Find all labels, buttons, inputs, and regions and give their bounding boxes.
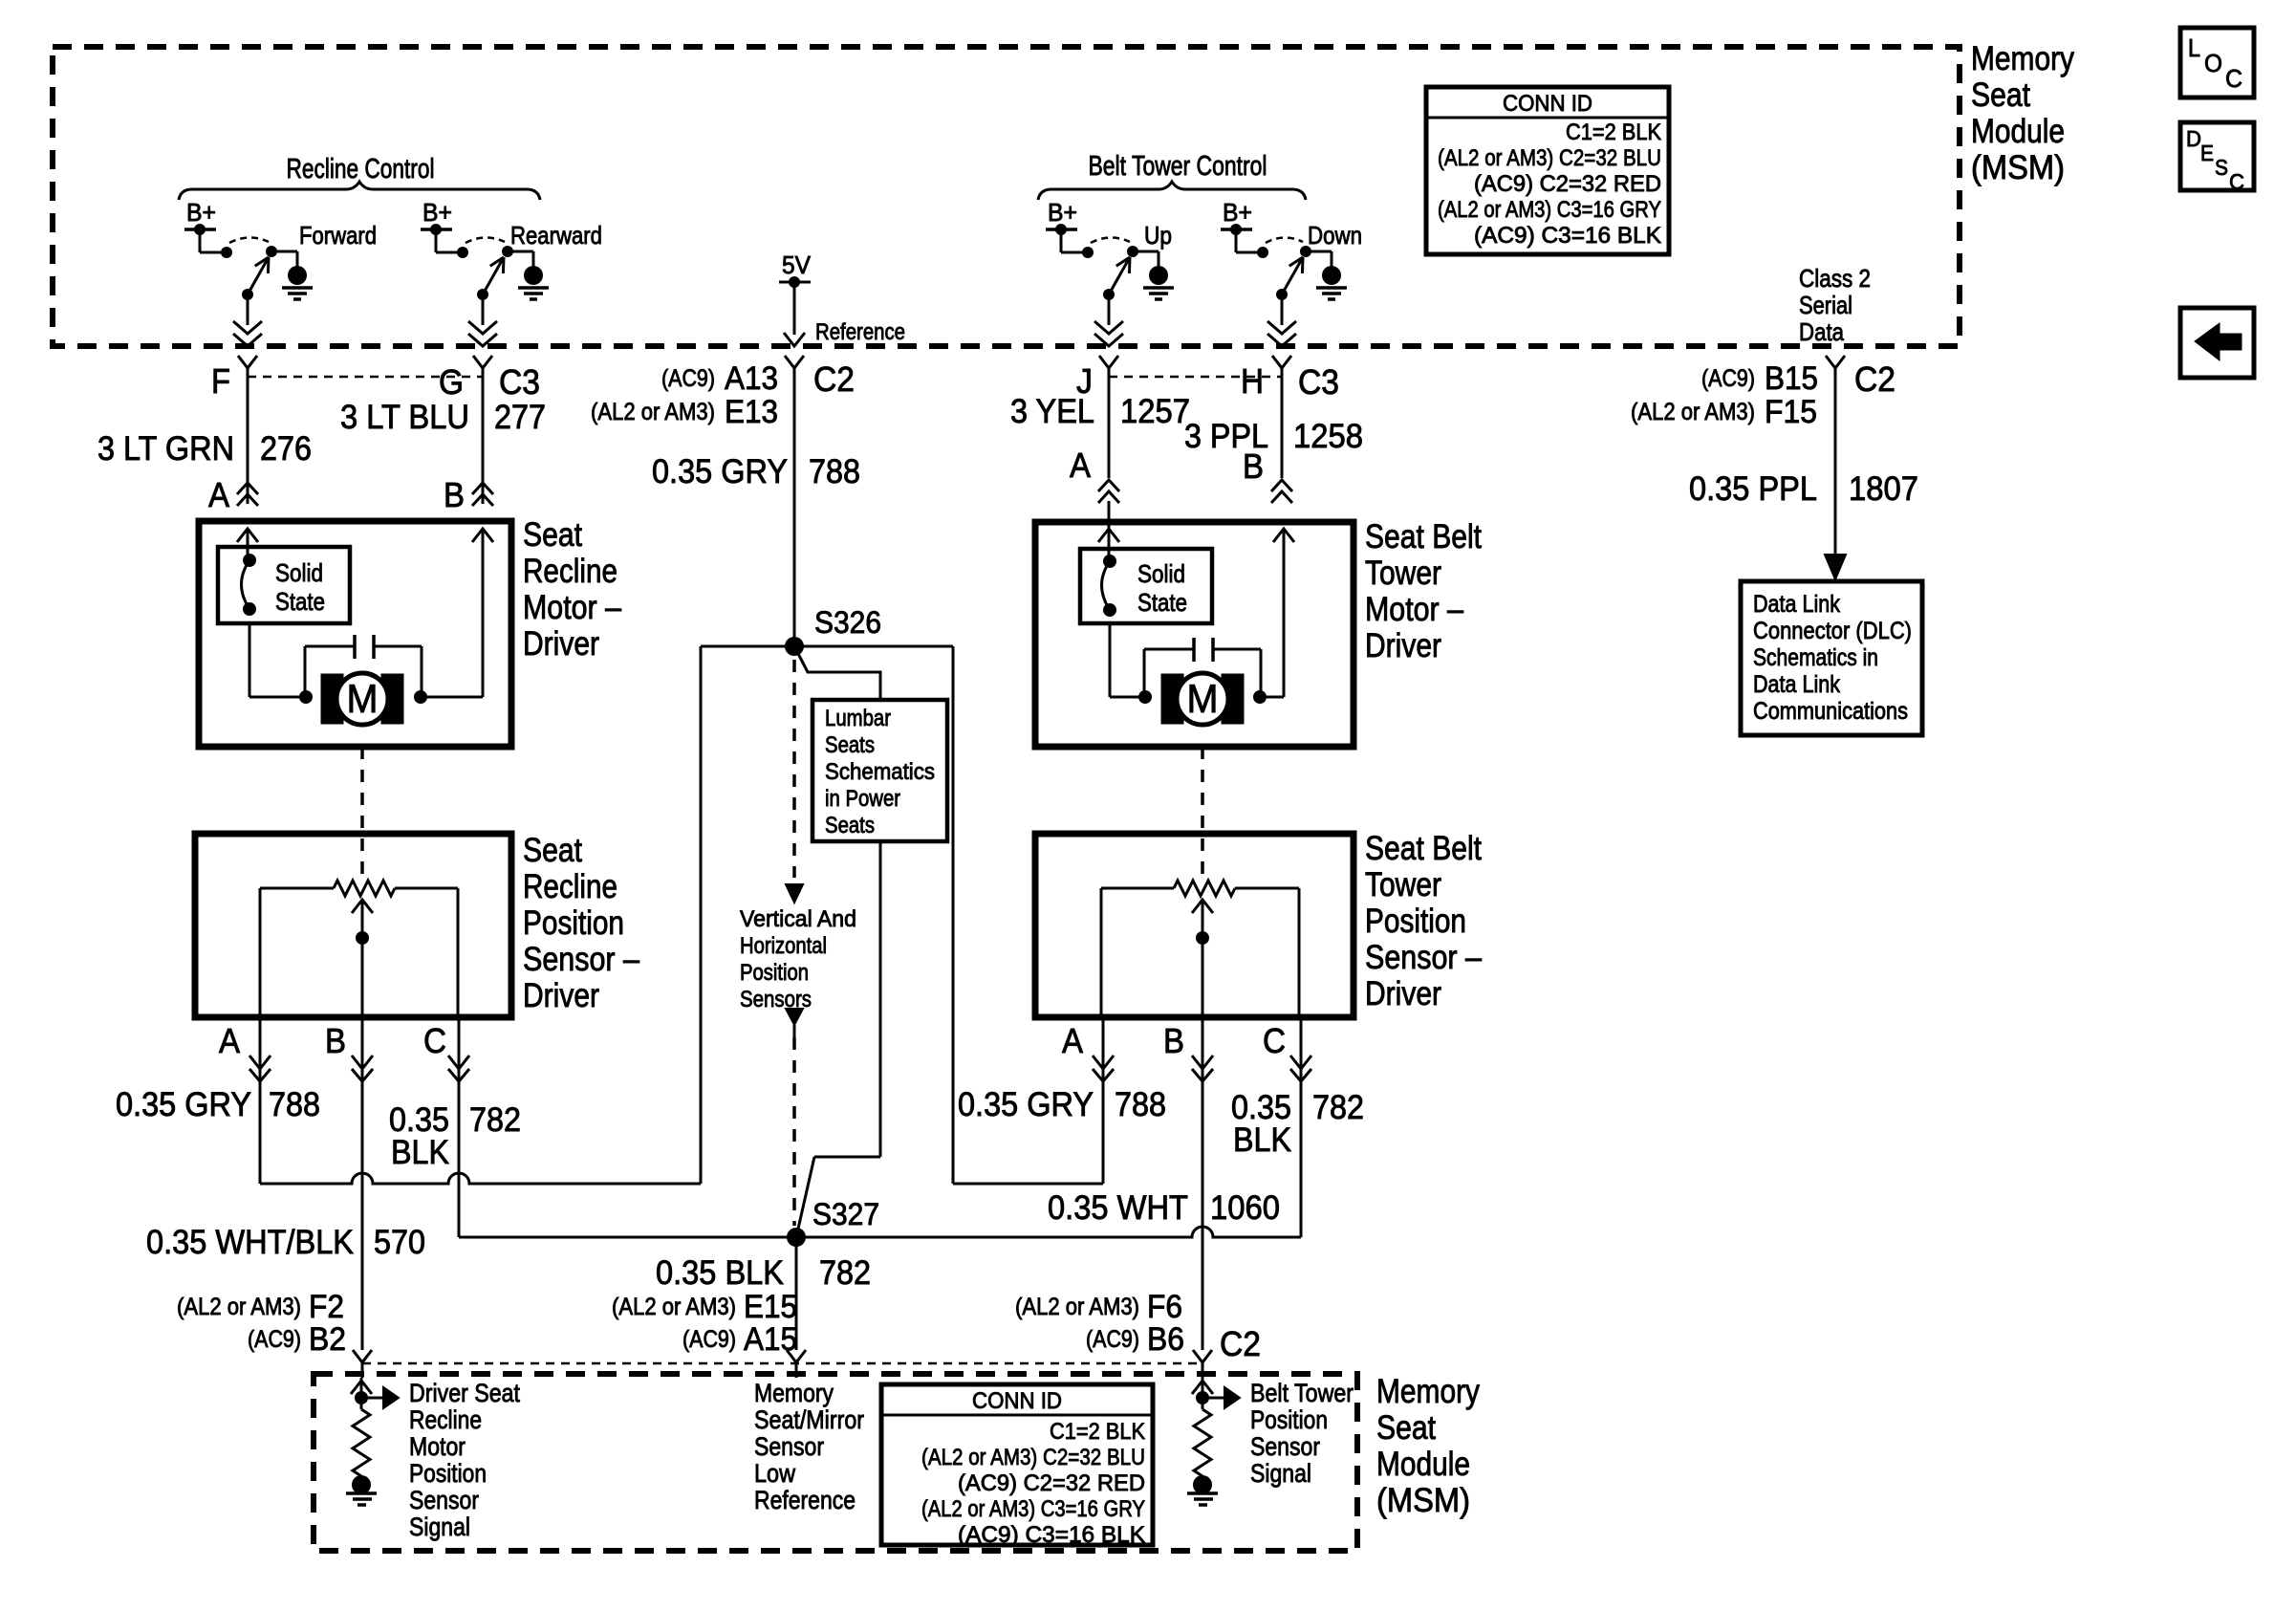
- svg-text:788: 788: [269, 1086, 320, 1123]
- component box: Seat Recline Position Sensor - Driver: [195, 834, 511, 1017]
- ground (Forward switch): [282, 266, 313, 299]
- svg-text:Seat: Seat: [1971, 76, 2030, 114]
- label: 3 PPL 1258: [1184, 418, 1363, 455]
- icon box: LOC: [2180, 28, 2254, 98]
- label: (AC9) A13: [661, 360, 778, 397]
- svg-text:B: B: [1243, 446, 1264, 486]
- svg-text:S: S: [2215, 155, 2228, 180]
- svg-text:F: F: [211, 361, 230, 401]
- label: Seat Recline Motor - Driver: [523, 516, 621, 663]
- svg-text:Reference: Reference: [815, 319, 905, 345]
- dashed mechanical link: recline motor to sensor: [360, 747, 364, 875]
- wire: S326 left branch to recline sensor pin A: [260, 1173, 701, 1184]
- label: Driver Seat Recline Motor Position Sensor Signal: [409, 1379, 520, 1541]
- node: Rearward switch pole contact: [502, 246, 513, 257]
- arrowhead (dashed link lower): [786, 1009, 803, 1037]
- table: CONN ID (top): [1426, 87, 1669, 254]
- svg-text:782: 782: [1312, 1089, 1364, 1126]
- svg-text:Low: Low: [754, 1459, 795, 1488]
- svg-text:Driver: Driver: [1365, 627, 1441, 664]
- svg-text:Schematics in: Schematics in: [1753, 644, 1878, 671]
- label: Class 2 Serial Data: [1799, 264, 1871, 346]
- wire: B+ to Down switch contact: [1236, 229, 1258, 252]
- svg-text:BLK: BLK: [1233, 1121, 1291, 1159]
- svg-text:Sensor: Sensor: [1250, 1432, 1320, 1461]
- svg-text:F15: F15: [1765, 394, 1817, 430]
- label: 0.35 GRY 788 (reference): [652, 453, 860, 490]
- svg-text:Rearward: Rearward: [510, 221, 602, 250]
- power B+ terminal (Up switch): [1046, 198, 1077, 235]
- connector C2 class 2 pin (Y symbol): [1826, 356, 1845, 380]
- node: Rearward switch B+ contact: [457, 247, 468, 258]
- label: Memory Seat/Mirror Sensor Low Reference: [754, 1379, 864, 1514]
- label: Reference: [815, 319, 905, 345]
- svg-text:Solid: Solid: [1137, 559, 1185, 588]
- connector chevrons at MSM edge (F wire): [233, 321, 262, 346]
- label: pin F: [211, 361, 230, 401]
- label: pin J: [1076, 361, 1093, 401]
- svg-text:C3: C3: [499, 362, 540, 402]
- thin dashed connector line (bottom): [362, 1362, 1202, 1365]
- thin dashed connector line J-H: [1109, 376, 1282, 379]
- svg-text:Driver: Driver: [1365, 975, 1441, 1012]
- svg-text:(AL2 or AM3): (AL2 or AM3): [612, 1294, 736, 1320]
- svg-text:D: D: [2186, 126, 2201, 151]
- svg-text:E: E: [2200, 141, 2214, 165]
- svg-text:Seat: Seat: [523, 832, 582, 869]
- inline connector chevrons (wire 276): [237, 483, 258, 506]
- ground (Down switch): [1316, 266, 1347, 299]
- arrowhead into DLC box: [1825, 555, 1846, 579]
- svg-text:(AL2 or AM3) C2=32 BLU: (AL2 or AM3) C2=32 BLU: [1438, 145, 1661, 171]
- svg-text:(AC9) C2=32 RED: (AC9) C2=32 RED: [1474, 171, 1661, 197]
- node: driver seat recline sensor signal tap: [355, 1391, 368, 1404]
- svg-text:3 LT GRN: 3 LT GRN: [97, 430, 234, 468]
- label: pin H: [1241, 361, 1264, 401]
- svg-text:B: B: [444, 475, 465, 514]
- svg-text:782: 782: [469, 1101, 521, 1139]
- svg-text:788: 788: [1115, 1086, 1166, 1123]
- label: Up: [1144, 221, 1172, 250]
- svg-text:Reference: Reference: [754, 1486, 856, 1514]
- label: Data Link Connector (DLC) Schematics in Data Link Communications: [1753, 591, 1912, 725]
- svg-text:(AC9): (AC9): [682, 1326, 736, 1353]
- svg-text:0.35 WHT/BLK: 0.35 WHT/BLK: [146, 1224, 354, 1261]
- svg-text:B: B: [325, 1021, 346, 1060]
- svg-text:Up: Up: [1144, 221, 1172, 250]
- wire: S327 bus (782): [459, 1227, 1301, 1237]
- connector arrows (belt sensor C): [1290, 1056, 1311, 1081]
- connector Y (782 into MSM): [787, 1350, 806, 1378]
- node: belt tower motor right terminal: [1253, 690, 1267, 704]
- svg-text:0.35 GRY: 0.35 GRY: [652, 453, 788, 490]
- svg-text:(AL2 or AM3): (AL2 or AM3): [177, 1294, 301, 1320]
- arrow into MSM (1060): [1192, 1378, 1213, 1409]
- label: 0.35 GRY 788 (recline sensor): [116, 1086, 320, 1123]
- connector chevrons at MSM edge (H wire): [1267, 321, 1296, 346]
- label: Seat Recline Position Sensor - Driver: [523, 832, 639, 1014]
- svg-text:Recline: Recline: [409, 1405, 482, 1434]
- connector arrows (belt sensor B): [1192, 1056, 1213, 1081]
- svg-text:Connector (DLC): Connector (DLC): [1753, 618, 1912, 644]
- connector C3 pin J (Y symbol): [1099, 356, 1118, 380]
- svg-text:A: A: [1070, 446, 1091, 485]
- svg-text:B+: B+: [1048, 198, 1077, 227]
- svg-text:E13: E13: [725, 394, 778, 430]
- switch arm SW1 Forward: [248, 257, 269, 294]
- wire: R2 right lead to pin C: [1235, 888, 1299, 1017]
- svg-text:782: 782: [819, 1254, 871, 1292]
- label: pin G: [439, 362, 464, 402]
- node: Forward switch arm pivot: [242, 289, 253, 300]
- label: Forward: [299, 221, 377, 250]
- svg-text:C2: C2: [1854, 359, 1895, 399]
- node S326 (splice): [785, 637, 804, 656]
- motor M1: Seat Recline Motor: [321, 673, 403, 725]
- arrow into recline motor (B): [472, 529, 493, 542]
- svg-text:B+: B+: [1223, 198, 1252, 227]
- svg-text:(AC9) C3=16 BLK: (AC9) C3=16 BLK: [1474, 223, 1661, 249]
- label: C2 (bottom): [1220, 1324, 1261, 1363]
- wire: B+ to Up switch contact: [1061, 229, 1083, 252]
- svg-text:(AC9): (AC9): [1086, 1326, 1139, 1353]
- label: C3 (recline pair): [499, 362, 540, 402]
- svg-text:Signal: Signal: [409, 1513, 470, 1541]
- label: Belt Tower Control: [1089, 151, 1267, 182]
- svg-text:Sensor: Sensor: [754, 1432, 824, 1461]
- svg-text:State: State: [1137, 588, 1187, 617]
- label: Rearward: [510, 221, 602, 250]
- label: (AL2 or AM3) F15: [1631, 394, 1817, 430]
- dashed throw arc (Down switch): [1266, 237, 1303, 243]
- solid state switch contacts (belt tower): [1102, 555, 1117, 617]
- svg-text:Horizontal: Horizontal: [740, 933, 827, 959]
- connector Y (570 into MSM): [353, 1350, 372, 1378]
- svg-text:0.35 GRY: 0.35 GRY: [958, 1086, 1094, 1123]
- svg-text:Data Link: Data Link: [1753, 671, 1840, 698]
- node: Up switch pole contact: [1127, 246, 1138, 257]
- node: Forward switch pole contact: [266, 246, 277, 257]
- dashed throw arc (Up switch): [1091, 237, 1130, 243]
- svg-text:Signal: Signal: [1250, 1459, 1311, 1488]
- svg-text:0.35 GRY: 0.35 GRY: [116, 1086, 251, 1123]
- svg-text:5V: 5V: [782, 250, 812, 279]
- wire: recline sensor pin A down: [259, 1017, 262, 1184]
- label: 5V: [782, 250, 812, 279]
- ground (belt tower signal): [1187, 1475, 1218, 1505]
- power B+ terminal (Forward switch): [184, 198, 216, 235]
- ground (Rearward switch): [518, 266, 549, 299]
- icon box: DESC: [2180, 122, 2254, 194]
- label: pin C (recline sensor): [423, 1021, 446, 1060]
- node: Rearward switch arm pivot: [477, 289, 488, 300]
- svg-text:E15: E15: [744, 1289, 797, 1325]
- reference box: Data Link Connector (DLC) Schematics: [1741, 581, 1922, 735]
- arrow into belt tower motor (A): [1098, 501, 1119, 560]
- svg-text:277: 277: [494, 399, 546, 436]
- svg-text:B2: B2: [309, 1321, 346, 1358]
- svg-text:(AC9) C2=32 RED: (AC9) C2=32 RED: [958, 1470, 1145, 1496]
- svg-text:Schematics: Schematics: [825, 759, 935, 785]
- label: 0.35 BLK 782 (recline sensor): [389, 1101, 521, 1171]
- wire: Down switch output (H): [1281, 294, 1284, 325]
- wire: Rearward switch output (G): [482, 294, 485, 325]
- wire 276: F connector to recline motor A: [247, 380, 249, 504]
- wire 277: G connector to recline motor B: [482, 380, 485, 504]
- solid state box (recline motor): [218, 547, 350, 623]
- wiper arrow (R2): [1192, 900, 1213, 1017]
- label: Memory Seat Module (MSM) bottom right: [1376, 1373, 1480, 1519]
- ground (recline signal): [346, 1475, 377, 1505]
- wire: recline motor to B pin: [421, 529, 483, 697]
- node: recline motor left terminal: [299, 690, 313, 704]
- reference box: Lumbar Seats Schematics in Power Seats: [812, 700, 947, 841]
- svg-text:Module: Module: [1971, 113, 2065, 150]
- wire: B+ to Rearward switch contact: [436, 229, 458, 252]
- label: (AC9) B15: [1701, 360, 1818, 397]
- label: S326: [814, 605, 881, 640]
- label: (AC9) A15: [682, 1321, 797, 1358]
- label: C2 (reference): [813, 359, 855, 399]
- svg-text:Seats: Seats: [825, 732, 875, 758]
- label: 0.35 BLK 782 (belt sensor): [1231, 1089, 1364, 1159]
- resistor R4 (belt tower signal load): [1194, 1409, 1211, 1476]
- svg-text:Driver: Driver: [523, 977, 599, 1014]
- potentiometer R1 (recline position): [334, 881, 395, 896]
- wire: R1 right lead to pin C: [395, 888, 458, 1017]
- svg-text:Seat: Seat: [1376, 1409, 1436, 1447]
- wire: Up pole to ground drop: [1133, 251, 1159, 267]
- wire 1807: class 2 serial data to DLC: [1834, 380, 1837, 574]
- svg-text:Class 2: Class 2: [1799, 264, 1871, 293]
- svg-text:in Power: in Power: [825, 786, 900, 812]
- svg-text:Data: Data: [1799, 317, 1844, 346]
- label: S327: [812, 1197, 879, 1231]
- wire 782: recline sensor pin C down to S327: [458, 1017, 461, 1237]
- arrow into MSM (570): [351, 1378, 372, 1409]
- motor M2: Seat Belt Tower Motor: [1161, 673, 1244, 725]
- svg-text:S326: S326: [814, 605, 881, 640]
- node: belt tower motor left terminal: [1138, 690, 1152, 704]
- wire: S326 right branch down: [952, 646, 955, 1184]
- wire: R1 left lead to pin A: [260, 888, 334, 1017]
- svg-text:Seats: Seats: [825, 813, 875, 838]
- svg-text:(AL2 or AM3) C3=16 GRY: (AL2 or AM3) C3=16 GRY: [921, 1496, 1145, 1522]
- label: pin B (belt sensor): [1163, 1021, 1184, 1060]
- label: 0.35 PPL 1807: [1689, 470, 1918, 508]
- arrow into recline motor (A): [237, 529, 258, 560]
- svg-text:Sensor –: Sensor –: [1365, 939, 1482, 976]
- svg-text:Position: Position: [1365, 903, 1466, 940]
- capacitor C (recline motor): [305, 635, 422, 697]
- switch arm SW2 Rearward: [483, 257, 504, 294]
- svg-text:O: O: [2204, 49, 2222, 77]
- svg-text:(AC9) C3=16 BLK: (AC9) C3=16 BLK: [958, 1522, 1145, 1548]
- arrowhead (dashed link upper): [786, 884, 803, 903]
- wire: Down pole to ground drop: [1306, 251, 1332, 267]
- wire: S326 right branch to belt sensor pin A: [953, 1183, 1103, 1186]
- wire: R2 left lead to pin A: [1101, 888, 1174, 1017]
- label: (AL2 or AM3) E15: [612, 1289, 797, 1325]
- component box: Seat Recline Motor - Driver: [199, 521, 511, 747]
- svg-text:C2: C2: [813, 359, 855, 399]
- node: R2 wiper: [1196, 931, 1209, 945]
- svg-text:Tower: Tower: [1365, 555, 1441, 592]
- wire: belt sensor pin A down: [1102, 1017, 1105, 1184]
- label: 0.35 WHT/BLK 570: [146, 1224, 425, 1261]
- wire: S326 left branch down: [700, 646, 703, 1184]
- svg-text:Position: Position: [1250, 1405, 1328, 1434]
- icon box: back arrow: [2180, 308, 2254, 378]
- svg-text:Module: Module: [1376, 1446, 1470, 1483]
- svg-text:Memory: Memory: [1376, 1373, 1480, 1410]
- svg-text:Down: Down: [1308, 221, 1362, 250]
- svg-text:(AC9): (AC9): [248, 1326, 301, 1353]
- svg-text:B: B: [1163, 1021, 1184, 1060]
- svg-text:Solid: Solid: [275, 558, 323, 587]
- svg-text:S327: S327: [812, 1197, 879, 1231]
- signal arrow: Driver Seat Recline Motor Position Sensor Signal: [361, 1387, 399, 1408]
- node: Down switch arm pivot: [1276, 289, 1288, 300]
- label: 0.35 GRY 788 (belt sensor): [958, 1086, 1166, 1123]
- svg-text:B6: B6: [1147, 1321, 1184, 1358]
- svg-text:Forward: Forward: [299, 221, 377, 250]
- connector C3 pin H (Y symbol): [1272, 356, 1291, 380]
- svg-text:A: A: [219, 1021, 240, 1060]
- svg-text:Seat: Seat: [523, 516, 582, 554]
- svg-text:(AC9): (AC9): [661, 365, 715, 392]
- svg-text:Recline: Recline: [523, 868, 617, 905]
- potentiometer R2 (belt tower position): [1174, 881, 1235, 896]
- label: Seat Belt Tower Position Sensor - Driver: [1365, 830, 1482, 1012]
- svg-text:3 LT BLU: 3 LT BLU: [340, 399, 469, 436]
- svg-text:Serial: Serial: [1799, 291, 1852, 319]
- inline connector chevrons (wire 277): [472, 483, 493, 506]
- connector C3 pin G (Y symbol): [473, 356, 492, 380]
- arrow into belt tower motor (B): [1273, 529, 1294, 542]
- connector C3 pin F (Y symbol): [238, 356, 257, 380]
- svg-text:Position: Position: [523, 904, 624, 942]
- svg-text:C1=2 BLK: C1=2 BLK: [1566, 120, 1661, 145]
- wire: Forward pole to ground drop: [271, 251, 297, 267]
- svg-text:CONN ID: CONN ID: [1503, 91, 1592, 117]
- node: Down switch pole contact: [1300, 246, 1311, 257]
- resistor R3 (recline signal load): [353, 1409, 370, 1476]
- svg-text:Belt Tower Control: Belt Tower Control: [1089, 151, 1267, 182]
- svg-text:C3: C3: [1298, 362, 1339, 402]
- svg-text:Position: Position: [409, 1459, 487, 1488]
- label: Solid State (belt tower): [1137, 559, 1187, 617]
- dashed throw arc (Rearward switch): [466, 237, 505, 243]
- inline connector chevrons (wire 1258): [1271, 480, 1292, 503]
- table: CONN ID (bottom): [881, 1384, 1153, 1548]
- label: pin A (recline sensor): [219, 1021, 240, 1060]
- label: 3 YEL 1257: [1010, 393, 1190, 430]
- label: pin B (recline motor): [444, 475, 465, 514]
- svg-text:0.35 PPL: 0.35 PPL: [1689, 470, 1817, 508]
- svg-text:1060: 1060: [1210, 1189, 1280, 1227]
- svg-text:(AL2 or AM3): (AL2 or AM3): [1015, 1294, 1139, 1320]
- label: Solid State (recline): [275, 558, 325, 616]
- svg-text:0.35 BLK: 0.35 BLK: [656, 1254, 784, 1292]
- switch arm SW3 Up: [1109, 257, 1130, 294]
- svg-text:Driver: Driver: [523, 625, 599, 663]
- connector chevrons at MSM edge (G wire): [468, 321, 497, 346]
- svg-text:A: A: [1062, 1021, 1083, 1060]
- power terminal 5V: [779, 276, 811, 288]
- wire: S326 tap to lumbar seats: [794, 646, 880, 700]
- svg-text:1258: 1258: [1293, 418, 1363, 455]
- svg-text:Seat/Mirror: Seat/Mirror: [754, 1405, 864, 1434]
- label: (AC9) B6: [1086, 1321, 1184, 1358]
- svg-text:(AL2 or AM3): (AL2 or AM3): [1631, 399, 1755, 425]
- svg-text:Vertical And: Vertical And: [740, 906, 856, 932]
- svg-text:Position: Position: [740, 960, 809, 986]
- node: belt tower sensor signal tap: [1196, 1391, 1209, 1404]
- svg-text:CONN ID: CONN ID: [972, 1388, 1062, 1414]
- wire 788: C2 connector down to S326: [793, 380, 796, 638]
- thin dashed connector line F-G: [248, 376, 483, 379]
- node: R1 wiper: [356, 931, 369, 945]
- label: pin B (recline sensor): [325, 1021, 346, 1060]
- inline connector chevrons (wire 1257): [1098, 480, 1119, 503]
- svg-text:Tower: Tower: [1365, 866, 1441, 903]
- label: (AL2 or AM3) F6: [1015, 1289, 1182, 1325]
- brace: Recline Control: [179, 182, 540, 200]
- svg-text:Communications: Communications: [1753, 698, 1908, 725]
- svg-text:C: C: [2225, 64, 2242, 93]
- label: (AL2 or AM3) E13: [591, 394, 778, 430]
- arrow into MSM edge (5V wire): [784, 333, 805, 346]
- svg-text:Sensor –: Sensor –: [523, 941, 639, 978]
- svg-text:F6: F6: [1147, 1289, 1182, 1325]
- wire: solid state to motor (belt tower): [1110, 623, 1145, 697]
- svg-text:1807: 1807: [1849, 470, 1918, 508]
- svg-text:276: 276: [260, 430, 312, 468]
- label: 3 LT BLU 277: [340, 399, 546, 436]
- label: Seat Belt Tower Motor - Driver: [1365, 518, 1482, 664]
- svg-text:Seat Belt: Seat Belt: [1365, 830, 1482, 867]
- svg-text:(AL2 or AM3) C3=16 GRY: (AL2 or AM3) C3=16 GRY: [1438, 197, 1661, 223]
- svg-text:B+: B+: [186, 198, 216, 227]
- module box: Memory Seat Module (MSM), dashed outline: [53, 47, 1960, 346]
- ground (Up switch): [1143, 266, 1174, 299]
- label: Lumbar Seats Schematics in Power Seats: [825, 706, 935, 838]
- wire 782: belt sensor pin C down to S327: [1300, 1017, 1303, 1237]
- power B+ terminal (Down switch): [1221, 198, 1252, 235]
- wire: S326 distribution bus: [701, 645, 953, 648]
- node: Down switch B+ contact: [1257, 247, 1268, 258]
- svg-text:Lumbar: Lumbar: [825, 706, 891, 731]
- node: recline motor right terminal: [414, 690, 427, 704]
- label: Memory Seat Module (MSM) top right: [1971, 40, 2074, 186]
- svg-text:Seat Belt: Seat Belt: [1365, 518, 1482, 555]
- wire: Rearward pole to ground drop: [508, 251, 533, 267]
- svg-text:Driver Seat: Driver Seat: [409, 1379, 520, 1407]
- svg-text:3 YEL: 3 YEL: [1010, 393, 1094, 430]
- label: pin C (belt sensor): [1263, 1021, 1286, 1060]
- module box: Memory Seat Module (MSM) bottom, dashed outline: [314, 1374, 1357, 1551]
- component box: Seat Belt Tower Position Sensor - Driver: [1035, 834, 1354, 1017]
- wire: Forward switch output (F): [247, 294, 249, 325]
- connector chevrons at MSM edge (J wire): [1094, 321, 1123, 346]
- label: Vertical And Horizontal Position Sensors: [740, 906, 856, 1012]
- svg-text:(AL2 or AM3): (AL2 or AM3): [591, 399, 715, 425]
- svg-text:Motor: Motor: [409, 1432, 466, 1461]
- svg-text:B+: B+: [422, 198, 452, 227]
- power B+ terminal (Rearward switch): [421, 198, 452, 235]
- svg-text:(MSM): (MSM): [1376, 1482, 1470, 1519]
